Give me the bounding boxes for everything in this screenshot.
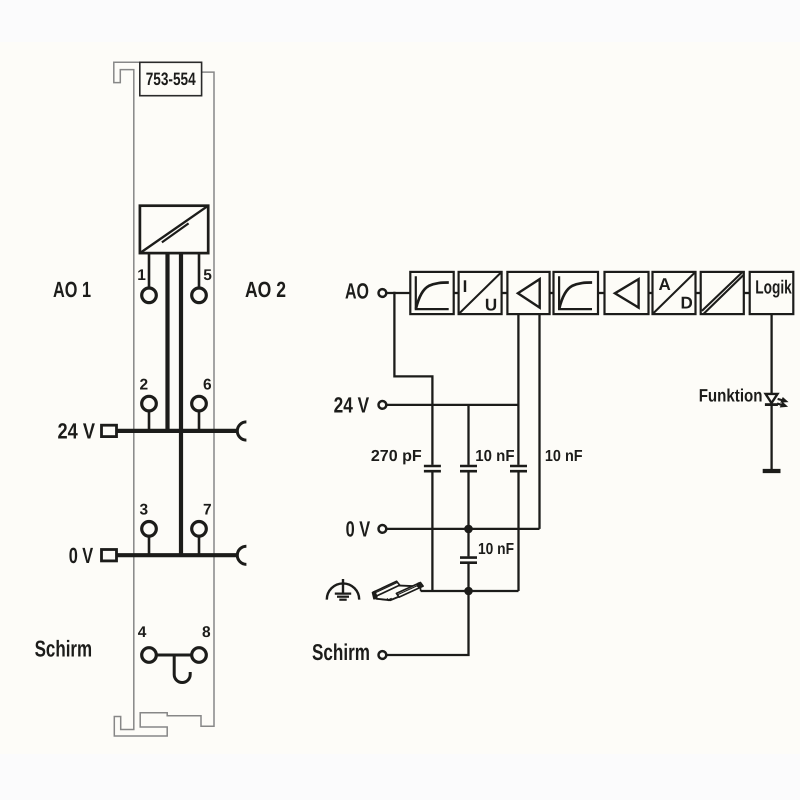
- pin 4 circle: [142, 648, 157, 663]
- pin 1 circle: [142, 288, 157, 303]
- wire block1-block2: [454, 292, 459, 294]
- svg-text:10 nF: 10 nF: [475, 448, 514, 465]
- pin 6 circle: [192, 396, 207, 411]
- svg-text:Schirm: Schirm: [35, 636, 93, 662]
- 24V right arc connector: [237, 422, 246, 440]
- svg-text:Funktion: Funktion: [699, 386, 763, 406]
- svg-text:Schirm: Schirm: [312, 639, 370, 665]
- pin 7 stem: [198, 536, 201, 555]
- svg-text:6: 6: [203, 377, 212, 394]
- pin 5 circle: [192, 288, 207, 303]
- junction node 0V/C2: [464, 525, 473, 534]
- block 3: amplifier triangle: [507, 272, 549, 314]
- svg-text:0 V: 0 V: [346, 517, 371, 542]
- Schirm terminal: [379, 651, 387, 659]
- DIN carrier rail symbol: [372, 581, 423, 600]
- svg-text:7: 7: [203, 502, 212, 519]
- wire block3-block4: [550, 292, 554, 294]
- block 4: characteristic curve: [554, 272, 599, 314]
- block 1: output characteristic curve: [410, 272, 453, 314]
- capacitor C2 plates: [460, 465, 477, 468]
- 24V left square connector: [102, 425, 117, 436]
- lead to pin 1: [148, 253, 151, 288]
- pin 6 stem: [198, 411, 201, 430]
- label box 753-554: [140, 62, 202, 95]
- LED cathode bar: [765, 403, 778, 406]
- svg-text:4: 4: [138, 624, 147, 641]
- block 2: I/U converter: [459, 272, 502, 315]
- 0V left square connector: [102, 550, 117, 561]
- svg-text:10 nF: 10 nF: [545, 448, 583, 465]
- svg-text:5: 5: [203, 267, 212, 284]
- svg-text:D: D: [681, 294, 693, 313]
- svg-text:10 nF: 10 nF: [478, 541, 514, 558]
- DAC short parallel line: [162, 223, 189, 242]
- svg-text:0 V: 0 V: [69, 543, 94, 568]
- svg-text:1: 1: [137, 267, 146, 284]
- wire AO branch down to 270pF: [394, 292, 432, 465]
- capacitor C2 10nF top lead: [467, 405, 469, 465]
- earth rail wire: [421, 590, 519, 592]
- pin 3 circle: [142, 522, 157, 537]
- capacitor C3 10nF column from block3 left output: [517, 314, 519, 465]
- svg-text:24 V: 24 V: [334, 393, 370, 418]
- wire block2-block3: [502, 292, 507, 294]
- capacitor C2 bottom lead: [467, 472, 469, 529]
- capacitor C1 270pF plates: [424, 465, 441, 468]
- thick supply lead to 0V rail: [179, 253, 183, 555]
- Schirm wire: [387, 591, 469, 655]
- pin 7 circle: [192, 522, 207, 537]
- DAC diagonal: [140, 206, 208, 253]
- pin 2 circle: [142, 396, 157, 411]
- block 5: amplifier triangle: [605, 272, 649, 314]
- svg-text:AO 2: AO 2: [245, 277, 286, 302]
- svg-text:8: 8: [202, 624, 211, 641]
- capacitor C4 10nF top lead: [467, 529, 469, 557]
- block3 right output wire to 0V: [538, 314, 540, 529]
- capacitor C4 plates: [460, 556, 477, 559]
- 24V terminal: [379, 401, 387, 409]
- LED emission arrows: [777, 399, 786, 406]
- LED D1 triangle: [766, 394, 778, 403]
- svg-text:AO: AO: [345, 279, 369, 304]
- svg-text:270 pF: 270 pF: [371, 448, 422, 465]
- 0V wire: [387, 528, 540, 530]
- svg-text:24 V: 24 V: [58, 419, 96, 444]
- 0V terminal: [379, 525, 387, 533]
- svg-text:753-554: 753-554: [146, 69, 196, 89]
- capacitor C3 bottom lead: [517, 472, 519, 591]
- junction node earth rail/C4/Schirm: [464, 587, 473, 596]
- functional earth symbol: [327, 579, 359, 600]
- DAC converter box U1: [140, 206, 208, 253]
- pin 2 stem: [148, 411, 151, 430]
- svg-text:2: 2: [140, 377, 149, 394]
- shield jumper wire pin4-pin8: [157, 654, 191, 657]
- capacitor C4 bottom lead: [467, 564, 469, 591]
- lead to pin 5: [198, 253, 201, 288]
- module outline with top hook and DIN-rail foot: [114, 62, 214, 736]
- svg-text:I: I: [463, 277, 468, 296]
- svg-text:U: U: [485, 296, 497, 315]
- block 7: galvanic isolation: [701, 272, 744, 314]
- wire Logik down to LED: [770, 314, 772, 394]
- capacitor C1 bottom lead: [431, 472, 433, 591]
- 0V rail inside module: [116, 553, 236, 557]
- 0V right arc connector: [237, 546, 246, 564]
- svg-text:Logik: Logik: [755, 277, 792, 298]
- 24V wire: [387, 404, 519, 406]
- wire block5-block6: [649, 292, 653, 294]
- block 8: Logik: [750, 272, 794, 314]
- thick supply lead to 24V rail: [165, 253, 169, 431]
- svg-text:AO 1: AO 1: [53, 277, 91, 302]
- AO terminal: [379, 289, 387, 297]
- block 6: A/D converter: [653, 272, 696, 314]
- svg-text:A: A: [658, 275, 670, 294]
- wire block7-block8: [744, 292, 750, 294]
- pin 3 stem: [148, 536, 151, 555]
- wire LED to ground stub: [770, 405, 772, 471]
- wire block4-block5: [598, 292, 605, 294]
- shield hook: [174, 656, 190, 683]
- ground stub bar: [763, 469, 781, 473]
- svg-text:3: 3: [140, 502, 149, 519]
- capacitor C3 plates: [510, 465, 527, 468]
- wire AO terminal to block 1: [387, 292, 411, 294]
- pin 8 circle: [192, 648, 207, 663]
- wire block6-block7: [696, 292, 701, 294]
- 24V rail inside module: [116, 429, 236, 433]
